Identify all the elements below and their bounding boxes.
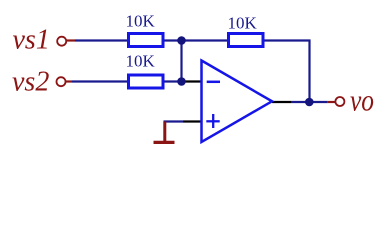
svg-text:10K: 10K xyxy=(126,12,156,31)
svg-text:10K: 10K xyxy=(126,51,156,70)
svg-text:vo: vo xyxy=(350,83,374,118)
svg-text:vs2: vs2 xyxy=(12,67,49,98)
svg-text:vs1: vs1 xyxy=(13,25,50,56)
svg-text:10K: 10K xyxy=(228,14,258,33)
